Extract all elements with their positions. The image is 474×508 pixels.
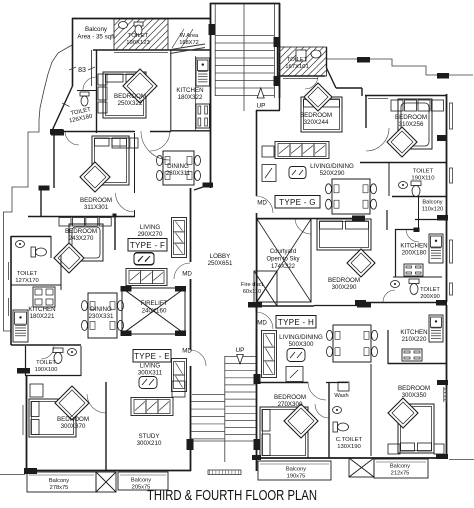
diamond bedroom250 — [123, 69, 157, 103]
svg-text:MD: MD — [257, 320, 267, 327]
living/dining G: sofa row — [275, 142, 329, 159]
TYPE H bottom wall — [256, 457, 448, 459]
toilet fixtures: basin — [119, 22, 128, 29]
c.toilet fixtures — [333, 407, 342, 414]
coffee table H — [287, 349, 305, 362]
balcony 110x120 — [418, 196, 420, 229]
door arc bedroom270 — [308, 382, 326, 400]
toilet 190X123 hatched area — [83, 19, 205, 50]
coffee table E — [139, 377, 157, 389]
armchair H — [286, 367, 303, 382]
hatched strip below stair landing — [208, 470, 241, 475]
svg-text:W.Area: W.Area — [180, 33, 199, 39]
staircase bottom: piers — [187, 439, 194, 450]
toilet200x90 top wall — [393, 276, 442, 278]
svg-text:520X290: 520X290 — [320, 170, 345, 177]
coffee table G — [289, 167, 306, 179]
svg-text:280X311: 280X311 — [166, 170, 191, 177]
pier on top-right property line — [357, 57, 370, 63]
svg-text:250X651: 250X651 — [208, 260, 233, 267]
svg-text:190x75: 190x75 — [287, 474, 306, 480]
courtyard X area — [257, 219, 311, 302]
bedroom 300X370 — [26, 376, 28, 470]
firelift box — [122, 288, 185, 334]
stair bottom-right corner L — [279, 98, 281, 110]
wall: bedroom311 left — [53, 133, 55, 188]
diamond bedroom310 — [387, 127, 417, 157]
svg-text:LIVING: LIVING — [140, 363, 160, 370]
svg-text:KITCHEN: KITCHEN — [400, 243, 427, 250]
wash — [338, 382, 349, 391]
staircase bottom: divider — [224, 356, 226, 462]
svg-text:311X301: 311X301 — [84, 204, 109, 211]
toilet190x100 — [25, 346, 27, 376]
staircase top: wall piers — [209, 24, 216, 35]
staircase top: UP arrow — [257, 88, 264, 98]
staircase top: outer walls — [210, 3, 212, 188]
pier toilet126 bottom — [51, 130, 64, 136]
sofa living F — [172, 218, 187, 258]
svg-text:TYPE - E: TYPE - E — [134, 352, 170, 361]
xbox bottom left — [96, 472, 116, 492]
armchair G — [262, 165, 276, 182]
bedroom243 right wall — [114, 217, 116, 250]
bedroom270 — [256, 306, 258, 383]
svg-text:Balcony: Balcony — [49, 478, 69, 484]
property stub bottom-right — [449, 459, 474, 461]
tv E — [134, 253, 154, 265]
type F box — [128, 239, 167, 252]
door arc toilet190x100 — [41, 346, 54, 359]
svg-text:212x75: 212x75 — [391, 471, 410, 477]
svg-text:Courtyard: Courtyard — [270, 249, 296, 255]
kitchen200 sink unit — [429, 234, 443, 263]
dining table G — [332, 179, 370, 214]
lobby right wall TYPE H door — [256, 306, 258, 312]
wall bedroom310 top windowed — [336, 87, 362, 89]
svg-text:Fire duct: Fire duct — [241, 282, 264, 288]
kitchen200 left wall — [395, 229, 397, 277]
svg-text:500X300: 500X300 — [289, 341, 314, 348]
svg-text:LOBBY: LOBBY — [210, 253, 231, 260]
svg-text:Balcony: Balcony — [390, 464, 410, 470]
bed bedroom243 — [69, 224, 103, 261]
svg-text:270X300: 270X300 — [278, 401, 303, 408]
door arc bedroom300x370 — [87, 394, 106, 413]
bed bedroom250 — [103, 72, 146, 118]
svg-text:TYPE - F: TYPE - F — [130, 241, 165, 250]
svg-text:180X322: 180X322 — [178, 94, 203, 101]
kitchen200 stove — [404, 264, 423, 276]
door arc c.toilet — [315, 404, 329, 418]
door arc kitchen200 — [406, 229, 419, 242]
diamond bedroom311 — [80, 162, 110, 192]
svg-text:UP: UP — [236, 347, 245, 354]
svg-text:110x120: 110x120 — [422, 207, 443, 213]
balcony 205x75 — [118, 472, 168, 490]
headboard squares bedroom310 — [391, 100, 403, 111]
side table G — [262, 146, 274, 157]
fire duct box — [254, 271, 277, 306]
wall: bedroom250/311 divider — [51, 131, 135, 133]
svg-text:DINING: DINING — [90, 306, 112, 313]
kitchen E: fridge/sink — [13, 310, 28, 342]
balcony 278x75 — [27, 472, 96, 492]
svg-text:BEDROOM: BEDROOM — [300, 112, 332, 119]
headboard squares bedroom243 — [59, 218, 71, 227]
svg-text:300X210: 300X210 — [137, 440, 162, 447]
svg-text:130X190: 130X190 — [337, 444, 361, 450]
svg-text:C.TOILET: C.TOILET — [336, 437, 363, 443]
svg-text:TOILET: TOILET — [17, 271, 38, 277]
wc toilet126 — [80, 92, 89, 96]
svg-text:TOILET: TOILET — [420, 287, 440, 293]
svg-text:200X180: 200X180 — [402, 250, 427, 257]
svg-text:Balcony: Balcony — [286, 467, 306, 473]
staircase bottom: treads left flight — [191, 401, 225, 403]
svg-text:250X322: 250X322 — [118, 100, 143, 107]
property stub bottom-left — [0, 474, 25, 476]
property line top-right stepped — [327, 59, 473, 75]
svg-text:240X160: 240X160 — [142, 308, 167, 315]
svg-text:TYPE - H: TYPE - H — [278, 318, 314, 327]
svg-text:180X221: 180X221 — [30, 313, 55, 320]
diamond bedroom243 — [54, 243, 84, 273]
svg-text:MD: MD — [257, 200, 267, 207]
svg-text:FIRELIFT: FIRELIFT — [141, 300, 168, 307]
staircase bottom: landing line — [191, 440, 256, 442]
svg-text:BEDROOM: BEDROOM — [57, 416, 89, 423]
svg-text:Balcony: Balcony — [85, 26, 108, 33]
staircase top: inner stringers — [214, 4, 216, 96]
door arc toilet200x90 — [383, 290, 395, 302]
wardrobe bedroom311 — [112, 138, 138, 148]
lobby left wall pier — [203, 183, 214, 188]
toilet167 hatched — [249, 47, 356, 76]
type E box — [133, 350, 171, 363]
kitchen210 bottom wall — [388, 363, 446, 365]
toilet127 room — [11, 236, 51, 238]
w.area diagonal marks — [172, 29, 184, 48]
svg-text:STUDY: STUDY — [139, 433, 160, 440]
svg-text:KITCHEN: KITCHEN — [176, 87, 203, 94]
svg-text:Balcony: Balcony — [131, 478, 151, 484]
svg-text:300X290: 300X290 — [332, 284, 357, 291]
svg-text:320X244: 320X244 — [304, 119, 329, 126]
dining E — [88, 293, 117, 338]
svg-text:LIVING/DINING: LIVING/DINING — [279, 334, 323, 341]
wall toilet190x100 top — [11, 344, 81, 346]
xbox bottom right — [349, 458, 374, 477]
balcony 212x75 — [374, 459, 428, 478]
TYPE G bottom wall — [256, 218, 365, 220]
door arc living F top — [141, 131, 170, 160]
bedroom310 bed — [398, 99, 432, 149]
window ladder right wall low — [443, 387, 445, 402]
svg-text:TOILET: TOILET — [128, 33, 149, 39]
wall under toilet200x90 — [360, 302, 446, 304]
svg-text:230X331: 230X331 — [89, 313, 114, 320]
svg-text:300X311: 300X311 — [138, 370, 163, 377]
wall: below balcony/toilet row — [93, 49, 210, 51]
bedroom350 — [370, 364, 372, 456]
bed bedroom320 — [301, 97, 342, 132]
door arc toilet167 — [305, 76, 318, 89]
dimension 83 ticks — [69, 67, 76, 70]
dining table F — [163, 151, 194, 185]
wall bedroom320 right — [361, 88, 363, 96]
toilet fixtures: wc — [134, 22, 143, 26]
svg-text:210X220: 210X220 — [402, 336, 427, 343]
pier on top-right property line 2 — [437, 73, 449, 79]
sofa H vertical — [262, 331, 277, 378]
w.area slanted bottom — [168, 44, 205, 50]
wall: balcony left — [72, 18, 74, 86]
wall: kitchen left / bedroom right — [170, 50, 172, 131]
lobby left wall lower with TYPE F door — [190, 188, 192, 262]
window marks right wall — [449, 103, 451, 129]
svg-text:168X72: 168X72 — [179, 40, 199, 46]
svg-text:BEDROOM: BEDROOM — [395, 114, 427, 121]
type H box — [276, 316, 316, 329]
wardrobe bedroom370 — [30, 384, 43, 397]
toilet190x110 — [360, 162, 446, 164]
wall bedroom/study — [105, 382, 107, 470]
right outer wall lower — [446, 305, 448, 458]
svg-text:DINING: DINING — [167, 163, 189, 170]
svg-text:290X270: 290X270 — [138, 231, 163, 238]
door arc bedroom311 — [65, 131, 79, 145]
study — [131, 398, 173, 416]
staircase top: treads — [215, 35, 275, 37]
svg-text:190X123: 190X123 — [126, 40, 150, 46]
door arc toilet126 — [83, 77, 96, 90]
kitchen sink unit — [196, 58, 210, 86]
staircase bottom: treads right flight — [225, 356, 256, 358]
svg-text:190X100: 190X100 — [35, 367, 58, 373]
pier bedroom311 top-left — [50, 129, 63, 135]
svg-text:UP: UP — [257, 103, 266, 110]
svg-text:300X350: 300X350 — [402, 392, 427, 399]
svg-text:TOILET: TOILET — [287, 57, 308, 63]
svg-text:KITCHEN: KITCHEN — [400, 329, 427, 336]
wall bedroom270 right — [328, 383, 330, 458]
svg-text:Balcony: Balcony — [422, 200, 442, 206]
svg-text:MD: MD — [182, 271, 192, 278]
property line left stepped — [4, 45, 73, 331]
svg-text:83: 83 — [78, 67, 86, 74]
staircase bottom: walls — [190, 346, 192, 350]
bedside boxes bedroom250 — [98, 74, 107, 85]
kitchen200 top wall — [395, 229, 419, 231]
svg-text:310X256: 310X256 — [399, 121, 424, 128]
door arc bedroom250 — [150, 131, 171, 133]
svg-text:BEDROOM: BEDROOM — [274, 394, 306, 401]
kitchen E: stove — [33, 287, 55, 307]
svg-text:MD: MD — [182, 348, 192, 355]
wall bedroom310 left + door arc — [365, 96, 367, 128]
svg-text:278x75: 278x75 — [50, 485, 69, 491]
kitchen counter strip — [195, 56, 197, 130]
bedroom 300X290 — [317, 219, 371, 250]
pier right wall — [437, 135, 447, 141]
lobby right wall upper with TYPE G door — [256, 110, 258, 196]
wall: top of unit F — [72, 18, 210, 20]
balcony110 bottom wall + pier — [415, 219, 448, 221]
wall: bedroom311 bottom — [28, 216, 135, 218]
svg-text:LIVING/DINING: LIVING/DINING — [310, 163, 354, 170]
door arc bedroom290 — [295, 218, 311, 234]
svg-text:LIVING: LIVING — [140, 224, 160, 231]
svg-text:Area - 35 sqft: Area - 35 sqft — [77, 34, 114, 41]
wall: living F left — [134, 133, 136, 193]
tv box F — [134, 253, 154, 265]
svg-text:BEDROOM: BEDROOM — [80, 197, 112, 204]
diamond bedroom320 — [304, 83, 332, 111]
svg-text:Wash: Wash — [334, 393, 348, 399]
wall: toilet126 diagonal left — [51, 86, 73, 133]
svg-text:Open to Sky: Open to Sky — [266, 257, 299, 263]
svg-text:THIRD & FOURTH FLOOR PLAN: THIRD & FOURTH FLOOR PLAN — [147, 488, 317, 503]
bottom wall TYPE E — [26, 470, 191, 472]
window sills left wall — [8, 262, 10, 280]
svg-text:BEDROOM: BEDROOM — [114, 93, 146, 100]
right outer wall top segment — [446, 94, 448, 302]
type G box — [275, 196, 320, 209]
svg-text:KITCHEN: KITCHEN — [28, 306, 55, 313]
TYPE H top wall — [250, 305, 314, 307]
wall: toilet126 top — [77, 90, 97, 92]
dining H — [333, 325, 371, 362]
kitchen stove — [196, 104, 210, 128]
svg-text:BEDROOM: BEDROOM — [398, 385, 430, 392]
svg-text:BEDROOM: BEDROOM — [65, 228, 97, 235]
svg-text:300X370: 300X370 — [61, 423, 86, 430]
wall: bedroom250 left — [96, 50, 98, 133]
sofa E right — [172, 359, 187, 392]
svg-text:TOILET: TOILET — [36, 360, 56, 366]
bed bedroom311 — [92, 136, 129, 185]
toilet127/kitchen divider — [11, 284, 61, 286]
svg-text:TYPE - G: TYPE - G — [279, 198, 316, 207]
toilet167 fixtures — [311, 50, 321, 58]
toilet167 bottom wall — [277, 47, 279, 77]
svg-text:BEDROOM: BEDROOM — [328, 277, 360, 284]
svg-text:TOILET: TOILET — [413, 169, 434, 175]
sofa E — [126, 269, 167, 286]
pier bedroom311 left lower — [39, 186, 50, 191]
svg-text:174X322: 174X322 — [271, 264, 296, 270]
wall: balcony right thin — [91, 50, 93, 86]
svg-text:167X101: 167X101 — [285, 64, 309, 70]
svg-text:60x110: 60x110 — [243, 289, 261, 295]
wall bedroom290 right — [386, 210, 388, 230]
svg-text:243X270: 243X270 — [69, 235, 94, 242]
svg-text:127X170: 127X170 — [15, 278, 39, 284]
svg-text:200X90: 200X90 — [420, 294, 440, 300]
lobby right wall courtyard segment — [256, 219, 258, 302]
kitchen210 left wall — [387, 330, 389, 364]
balcony 190x75 — [258, 461, 331, 480]
toilet200x90 fixtures — [391, 281, 400, 288]
